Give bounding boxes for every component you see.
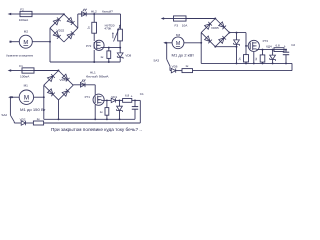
svg-text:1к: 1к xyxy=(100,55,104,59)
svg-text:Р73: Р73 xyxy=(263,39,269,43)
svg-text:F3: F3 xyxy=(175,23,179,27)
svg-text:F2: F2 xyxy=(20,8,24,12)
svg-text:6,8: 6,8 xyxy=(125,94,130,98)
svg-text:VD65: VD65 xyxy=(211,26,219,30)
svg-text:КД4: КД4 xyxy=(266,44,272,48)
svg-text:1к: 1к xyxy=(185,64,189,68)
svg-text:SA2: SA2 xyxy=(1,113,7,117)
svg-text:100мА: 100мА xyxy=(20,74,30,78)
svg-text:М1: М1 xyxy=(24,83,29,87)
svg-text:1к: 1к xyxy=(254,57,258,61)
svg-text:М1 до 150 Вт: М1 до 150 Вт xyxy=(20,108,46,112)
svg-text:М2: М2 xyxy=(24,29,29,33)
svg-text:F1: F1 xyxy=(19,64,23,68)
svg-text:1к: 1к xyxy=(238,57,242,61)
svg-text:Р71: Р71 xyxy=(85,95,91,99)
svg-text:Управление охлаждением: Управление охлаждением xyxy=(6,53,33,57)
svg-text:VD51: VD51 xyxy=(60,78,68,82)
svg-text:С1: С1 xyxy=(140,92,144,96)
svg-text:белый?: белый? xyxy=(102,9,113,13)
svg-text:VD1: VD1 xyxy=(111,95,117,99)
svg-text:При закрытом полевике куда ток: При закрытом полевике куда току бечь? .. xyxy=(51,127,142,132)
svg-text:VD6: VD6 xyxy=(172,65,178,69)
svg-text:100мА: 100мА xyxy=(19,18,29,22)
svg-text:10А: 10А xyxy=(182,23,188,27)
svg-text:HL2: HL2 xyxy=(91,9,97,13)
svg-text:М1 до 2 кВт: М1 до 2 кВт xyxy=(172,54,195,58)
svg-text:6,8: 6,8 xyxy=(276,44,281,48)
svg-text:VD2: VD2 xyxy=(20,118,26,122)
svg-text:SA3: SA3 xyxy=(153,58,159,62)
svg-text:С2: С2 xyxy=(291,43,295,47)
svg-text:470К: 470К xyxy=(104,26,111,30)
svg-text:+: + xyxy=(131,95,133,99)
svg-text:М3: М3 xyxy=(176,33,181,37)
svg-text:1к: 1к xyxy=(100,110,104,114)
svg-text:VD8: VD8 xyxy=(125,53,131,57)
svg-text:1к: 1к xyxy=(87,26,91,30)
svg-text:Р72: Р72 xyxy=(86,44,92,48)
svg-text:VD32: VD32 xyxy=(57,28,65,32)
svg-text:+: + xyxy=(284,44,286,48)
svg-text:М: М xyxy=(24,95,29,102)
svg-text:белый 90мА: белый 90мА xyxy=(86,75,110,79)
